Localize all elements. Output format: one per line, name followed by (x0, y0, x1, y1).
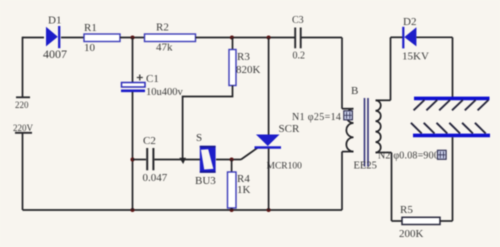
svg-text:SCR: SCR (279, 123, 300, 135)
capacitor C3 (292, 15, 305, 62)
transformer B primary winding N1 (346, 109, 353, 152)
svg-text:220V: 220V (13, 123, 34, 133)
wire D1 to R1 (61, 37, 84, 39)
wire primary return to bottom rail (341, 152, 343, 210)
wire node A down to C1 (132, 38, 134, 83)
wire N2 top stub (376, 99, 391, 101)
junction dot bottom R4 (230, 208, 234, 212)
svg-text:10: 10 (84, 42, 96, 54)
wire R2 to C3 (196, 37, 295, 39)
svg-text:C1: C1 (146, 73, 159, 85)
wire R5 right (440, 220, 453, 222)
wire top rail left segment (23, 37, 45, 39)
wire C3 to transformer (302, 37, 343, 39)
diac S BU3 (195, 132, 216, 187)
wire gate diagonal to SCR (241, 148, 258, 160)
wire N1 bottom stub (342, 151, 354, 153)
svg-text:R2: R2 (156, 22, 169, 34)
junction dot bottom C1 (131, 208, 135, 212)
resistor R4 (228, 172, 251, 208)
wire lower electrode down to R5 (452, 137, 454, 221)
wire R3 bottom jog (183, 86, 233, 160)
wire R1 to node A (120, 37, 145, 39)
AC source terminal lower bar (15, 132, 32, 134)
svg-text:1K: 1K (237, 184, 251, 196)
resistor R2 (145, 22, 196, 54)
wire to C2 (133, 159, 147, 161)
svg-text:EE25: EE25 (354, 161, 377, 172)
resistor R5 (399, 204, 440, 240)
wire N1 top stub (342, 108, 354, 110)
wire down to upper electrode (452, 37, 454, 97)
svg-text:N1 φ25=14: N1 φ25=14 (292, 112, 341, 123)
wire N2 bottom down to R5 (391, 153, 393, 222)
wire C1 down to bottom rail (132, 92, 134, 210)
wire left column upper (22, 37, 24, 97)
svg-text:10u400v: 10u400v (146, 87, 184, 98)
diode D2 (402, 16, 429, 63)
svg-text:D2: D2 (403, 16, 416, 28)
svg-text:R1: R1 (84, 22, 97, 34)
node R3 top junction dot (230, 36, 234, 40)
lower electrode bar (413, 134, 490, 138)
resistor R1 (84, 22, 120, 54)
wire D2 right (417, 36, 453, 38)
svg-text:N2 φ0.08=900: N2 φ0.08=900 (378, 151, 439, 162)
wire R5 left (392, 220, 403, 222)
svg-text:B: B (351, 85, 358, 97)
svg-text:0.047: 0.047 (143, 172, 168, 184)
label N2 turns glyph box (438, 150, 447, 159)
svg-text:D1: D1 (48, 15, 61, 27)
thyristor SCR MCR100 (255, 123, 303, 172)
diode D1 (43, 15, 67, 62)
capacitor C2 (143, 135, 168, 184)
svg-text:R3: R3 (237, 51, 250, 63)
wire N2 top rise to D2 (390, 37, 392, 100)
svg-text:4007: 4007 (43, 47, 67, 61)
svg-text:200K: 200K (399, 228, 424, 240)
resistor R3 (229, 50, 261, 86)
wire diac to gate node (216, 159, 241, 161)
svg-text:47k: 47k (156, 42, 173, 54)
wire R3 top (232, 38, 234, 50)
svg-text:0.2: 0.2 (293, 51, 306, 62)
wire D2 left (391, 36, 404, 38)
svg-text:R5: R5 (400, 204, 413, 216)
svg-text:C3: C3 (292, 15, 304, 26)
label N1 turns glyph box (344, 111, 353, 120)
upper electrode bar (414, 97, 490, 101)
node A junction dot (131, 36, 135, 40)
capacitor C1 (121, 73, 184, 98)
wire transformer primary left down (341, 38, 343, 109)
upper electrode hatching (414, 100, 489, 110)
wire C2 to diac S (155, 159, 201, 161)
svg-text:820K: 820K (236, 64, 261, 76)
junction dot gate node (230, 158, 234, 162)
wire left column lower (22, 134, 24, 211)
wire SCR anode (268, 38, 270, 136)
wire bottom rail (23, 209, 343, 211)
wire R4 bottom (231, 208, 233, 210)
wire N2 bottom stub (376, 152, 392, 154)
transformer secondary winding N2 (376, 100, 381, 152)
node SCR anode junction dot (267, 36, 271, 40)
svg-text:MCR100: MCR100 (267, 162, 303, 172)
junction dot C2 row left (131, 158, 135, 162)
svg-text:C2: C2 (143, 135, 156, 147)
wire SCR cathode (268, 149, 270, 211)
svg-text:S: S (196, 132, 202, 144)
lower electrode hatching (411, 123, 486, 134)
junction dot bottom SCR (267, 208, 271, 212)
junction R3 drop joins row (179, 158, 186, 164)
transformer core lines (365, 98, 369, 167)
AC source terminal upper bar (16, 96, 30, 98)
svg-text:220: 220 (15, 100, 29, 110)
svg-text:BU3: BU3 (195, 175, 216, 187)
wire R4 top (231, 160, 233, 173)
svg-text:15KV: 15KV (402, 51, 429, 63)
